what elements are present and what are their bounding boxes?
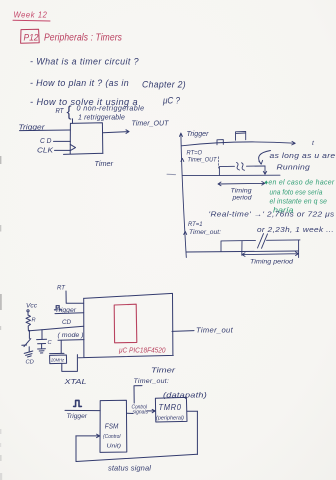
timing period double arrow (RT=1)	[242, 252, 299, 257]
page edge smudges (decorative)	[0, 156, 1, 164]
svg-text:- What is a timer circuit ?: - What is a timer circuit ?	[30, 57, 139, 67]
label Week 12	[14, 10, 48, 20]
svg-text:RT: RT	[57, 285, 66, 292]
crystal Y1 box	[50, 355, 67, 364]
svg-text:status signal: status signal	[108, 466, 151, 473]
node junction R/switch/C	[29, 330, 31, 332]
svg-text:- How to plan it ? (as in: - How to plan it ? (as in	[30, 78, 129, 88]
waveform RT=0 fall with down arrow	[263, 166, 266, 174]
wire RT lead into timer top	[72, 119, 74, 124]
wire Trigger pin	[55, 312, 84, 315]
pulse glyph above Trigger (fsm)	[74, 400, 82, 406]
break slashes on RT=1 high	[258, 234, 268, 249]
wire Vcc to resistor	[27, 312, 29, 315]
svg-text:Running: Running	[277, 162, 311, 171]
svg-text:Timer_out:: Timer_out:	[134, 378, 170, 385]
svg-text:Timer_OUT: Timer_OUT	[132, 121, 170, 128]
block FSM control unit	[100, 400, 127, 452]
wire control signals arrow into TMR0	[147, 409, 155, 412]
svg-text:Timer: Timer	[95, 159, 114, 168]
wire Timer_OUT output with arrow	[103, 130, 129, 134]
svg-text:(Control: (Control	[103, 434, 121, 440]
wire capacitor to ground	[41, 344, 43, 349]
svg-text:period: period	[231, 195, 252, 202]
svg-text:Timer_out:: Timer_out:	[189, 230, 221, 236]
svg-text:RT: RT	[56, 108, 65, 115]
svg-text:Week 12: Week 12	[14, 10, 48, 20]
svg-text:el instante en q se: el instante en q se	[270, 199, 328, 206]
wire status feedback into FSM with arrow	[76, 434, 100, 437]
pulse glyph over Trigger	[55, 306, 62, 310]
waveform RT=1 rise and high	[221, 240, 300, 252]
switch S1 push button	[22, 339, 31, 352]
svg-text:FSM: FSM	[105, 422, 119, 431]
box P12	[21, 29, 40, 43]
wire junction to capacitor	[41, 330, 43, 340]
wire TMR0 output to feedback	[187, 410, 197, 412]
svg-text:Chapter 2): Chapter 2)	[142, 80, 186, 90]
microcontroller U2 PIC18F4520 body	[79, 293, 174, 357]
stray dash mark	[167, 173, 176, 175]
wire Trigger to timer	[20, 129, 71, 132]
svg-text:XTAL: XTAL	[63, 377, 86, 386]
wire CD pin from RC junction	[30, 326, 84, 331]
red timer sub-block inside chip	[114, 304, 137, 343]
svg-text:signals: signals	[133, 410, 149, 416]
wire junction to switch	[28, 331, 30, 339]
svg-text:R: R	[32, 318, 36, 324]
svg-text:1 retriggerable: 1 retriggerable	[78, 114, 125, 121]
dashed tick under pulse1	[218, 157, 220, 168]
svg-text:CD: CD	[26, 360, 34, 366]
svg-text:RT=1: RT=1	[188, 222, 203, 228]
wire mode to crystal	[60, 340, 62, 353]
svg-text:TMR0: TMR0	[159, 403, 182, 412]
svg-text:C D: C D	[40, 138, 52, 145]
wire crystal to chip bottom	[62, 355, 78, 372]
wire RT=0 baseline	[183, 174, 281, 176]
timing period double arrow (RT=0)	[218, 182, 265, 186]
svg-text:Unit): Unit)	[107, 444, 122, 450]
wire bracket from Timer_out down	[134, 386, 142, 403]
axis long vertical with up arrow	[179, 133, 186, 258]
wire status feedback right vertical	[196, 411, 198, 454]
wire CD to timer	[54, 140, 71, 142]
arrowhead on axis at RT=1	[184, 231, 187, 234]
svg-text:μC PIC18F4520: μC PIC18F4520	[118, 345, 166, 354]
wire t axis with right arrow	[182, 141, 296, 145]
resistor R	[26, 315, 31, 331]
wire mode pin	[58, 339, 84, 342]
node Vcc terminal	[27, 310, 29, 312]
svg-text:Timer: Timer	[151, 365, 176, 374]
wire status feedback left vertical	[75, 436, 77, 461]
wire RT=1 baseline	[186, 251, 298, 252]
curved arrow from annotation to falling edge	[259, 151, 271, 165]
svg-text:0 non-retriggerable: 0 non-retriggerable	[77, 106, 145, 113]
svg-text:as long as u are: as long as u are	[270, 151, 336, 160]
svg-text:{: {	[67, 104, 72, 121]
capacitor C plates	[37, 339, 47, 343]
trigger pulse 1	[217, 140, 223, 145]
break marks on RT=0 high	[237, 163, 245, 171]
svg-text:Peripherals : Timers: Peripherals : Timers	[44, 33, 122, 44]
svg-text:Trigger: Trigger	[67, 414, 89, 420]
arrowhead on axis at RT=0	[181, 158, 184, 161]
svg-text:or 2,23h, 1 week ...: or 2,23h, 1 week ...	[257, 227, 334, 234]
svg-text:Timing: Timing	[231, 188, 252, 195]
underline under Week 12	[13, 19, 50, 22]
svg-text:CD: CD	[62, 319, 71, 326]
svg-text:'Real-time' →' 2,76ns or 722: 'Real-time' →' 2,76ns or 722 μs	[209, 212, 335, 219]
svg-text:CLK: CLK	[37, 148, 53, 155]
trigger pulse 2	[236, 132, 246, 141]
svg-text:♦en el caso de hacer: ♦en el caso de hacer	[265, 179, 335, 186]
wire CLK to timer	[55, 149, 71, 151]
svg-text:una foto ese sería: una foto ese sería	[270, 190, 323, 197]
svg-text:RT=O: RT=O	[187, 150, 203, 156]
block TMR0 peripheral	[155, 397, 187, 422]
svg-text:( mode ): ( mode )	[58, 332, 84, 339]
svg-text:Timer_OUT: Timer_OUT	[188, 157, 218, 163]
svg-text:Vcc: Vcc	[26, 303, 38, 310]
svg-text:Trigger: Trigger	[187, 129, 210, 138]
wire control signals stub from FSM	[127, 412, 133, 414]
svg-text:20MHz: 20MHz	[50, 357, 65, 362]
wire status feedback bottom	[76, 454, 197, 461]
crystal Y1 top bar	[50, 352, 64, 354]
svg-text:μC ?: μC ?	[162, 96, 180, 106]
timer box U1	[64, 123, 104, 155]
wire Trigger into FSM	[65, 409, 100, 411]
clock edge triangle on timer	[70, 144, 75, 150]
waveform RT=0 pulse rise and high	[219, 166, 265, 175]
svg-text:P12: P12	[24, 33, 39, 43]
wire RT lead to chip	[66, 291, 84, 303]
tick right end RT=1	[298, 240, 300, 258]
ground under switch	[24, 351, 33, 357]
svg-text:Timer_out: Timer_out	[196, 325, 234, 334]
svg-text:(peripheral): (peripheral)	[156, 415, 184, 421]
tick left bound timing period (RT=1)	[241, 241, 243, 255]
wire Timer_out from chip	[172, 330, 194, 333]
ground under capacitor	[38, 349, 46, 353]
svg-text:Timing period: Timing period	[250, 259, 293, 266]
